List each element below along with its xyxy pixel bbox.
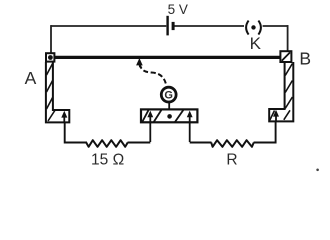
- jockey lead to galvanometer (dashed): [140, 64, 167, 86]
- hatch lines centre strip: [142, 109, 149, 122]
- resistor 15 ohm zigzag: [86, 140, 128, 147]
- wire resistor R to foot B: [254, 122, 276, 143]
- wire right vertical drop to terminal B: [287, 25, 289, 52]
- galvanometer G: [161, 87, 176, 102]
- arrow contact in foot B: [273, 110, 279, 117]
- arrow contact left on centre strip: [147, 111, 153, 118]
- wire key to top-right corner: [263, 25, 289, 27]
- battery cell plates: [166, 16, 168, 36]
- terminal square at B: [280, 51, 291, 62]
- jockey arrow on bridge wire: [136, 58, 143, 65]
- hatch lines strip A: [47, 64, 53, 76]
- svg-text:R: R: [226, 151, 237, 168]
- centre copper strip (hatched): [141, 109, 197, 122]
- terminal square at A: [46, 53, 54, 61]
- wire left vertical drop to terminal A: [50, 25, 52, 53]
- svg-text:K: K: [250, 34, 262, 53]
- svg-text:G: G: [164, 90, 173, 102]
- galvanometer terminal dot on strip: [167, 114, 172, 119]
- wire centre strip right across: [190, 142, 212, 144]
- arrow contact in foot A: [61, 111, 67, 118]
- wire foot A down and across: [65, 123, 87, 143]
- bridge wire AB (thick): [54, 56, 280, 59]
- wire G to centre strip: [168, 103, 170, 116]
- svg-text:15 Ω: 15 Ω: [91, 151, 124, 168]
- wire top-left horizontal (battery loop): [51, 25, 166, 27]
- resistor R zigzag: [211, 140, 254, 147]
- arrow contact right on centre strip: [187, 111, 193, 118]
- svg-text:5 V: 5 V: [168, 2, 188, 17]
- svg-text:A: A: [25, 68, 37, 88]
- svg-text:B: B: [299, 49, 311, 69]
- stray period mark: [316, 169, 319, 172]
- copper strip B (reverse-L, hatched): [269, 62, 293, 121]
- key K (plug key symbol): [246, 21, 249, 35]
- wire battery to key: [174, 25, 244, 27]
- copper strip A (L-shape, hatched): [46, 62, 69, 122]
- hatch lines strip B: [285, 64, 292, 76]
- wire resistor to centre strip left: [128, 142, 151, 144]
